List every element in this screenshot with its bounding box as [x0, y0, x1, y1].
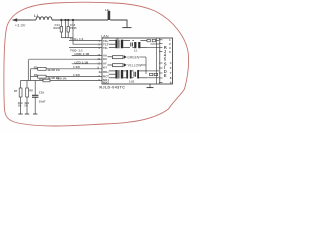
node junction dots on rail [60, 19, 74, 21]
pin labels left (TD group) [103, 39, 109, 50]
net stub TXO- [69, 47, 102, 49]
resistor R8 [24, 81, 33, 115]
svg-text:10nF: 10nF [39, 99, 46, 103]
termination resistors (bottom right) [147, 71, 159, 78]
choke (bottom) [126, 70, 134, 83]
wire left vertical V1 [27, 59, 29, 80]
right column divider [159, 38, 161, 84]
ferrite bead L2 [105, 8, 110, 20]
wire bottom row [21, 80, 44, 82]
transformer T1 (top windings) [109, 38, 130, 48]
svg-text:RJLD-043TC: RJLD-043TC [99, 85, 125, 89]
choke (top) [134, 41, 147, 53]
svg-text:TD-: TD- [103, 46, 108, 50]
transformer T2 (bottom windings) [109, 70, 127, 79]
net stub ACT led [72, 63, 102, 65]
svg-text:R8: R8 [29, 88, 33, 92]
LED yellow [108, 63, 147, 67]
svg-text:MX2: MX2 [103, 81, 109, 85]
wire cap bus to block [61, 37, 73, 39]
+3.3V power flag [12, 18, 31, 27]
resistor R4 (horizontal) [39, 77, 67, 82]
svg-text:LINK 1:1B: LINK 1:1B [75, 52, 91, 56]
capacitor internal (top) [131, 41, 134, 48]
wire drops from rail [61, 20, 73, 45]
svg-text:49.9R 1%: 49.9R 1% [47, 68, 60, 72]
svg-text:R4: R4 [39, 77, 43, 81]
svg-text:49.9 1%: 49.9 1% [56, 77, 67, 81]
inductor L1 [34, 14, 52, 20]
svg-text:R7: R7 [14, 89, 18, 93]
pin labels left (LED group) [103, 53, 107, 69]
wire rail to ground [110, 20, 127, 28]
svg-text:LED 1:1B: LED 1:1B [75, 60, 90, 64]
net stub LINK led [72, 54, 102, 56]
svg-text:R1/X5: R1/X5 [54, 27, 61, 30]
wire led common [145, 57, 147, 74]
svg-text:GREEN: GREEN [127, 55, 140, 59]
ground (top) [122, 27, 131, 29]
svg-text:KY: KY [103, 65, 107, 69]
svg-text:K9: K9 [103, 57, 107, 61]
svg-text:1:1B: 1:1B [73, 65, 80, 69]
inner section boundary [156, 38, 158, 84]
svg-text:TXO+ 1:1: TXO+ 1:1 [70, 37, 84, 41]
right column pin stubs and numbers (top group) [159, 40, 163, 52]
svg-text:YELLOW: YELLOW [127, 63, 142, 67]
svg-text:P1/X5: P1/X5 [70, 27, 77, 30]
svg-text:1:1B: 1:1B [73, 73, 80, 77]
pin labels left (RD group) [103, 70, 109, 85]
pin numbers left (TD group) [99, 40, 101, 50]
wire left vertical V2 [30, 69, 32, 81]
capacitor C14 [54, 23, 63, 38]
resistor R7 [14, 81, 23, 115]
svg-text:1:1B: 1:1B [129, 80, 134, 83]
right column vertical text (RJ45 SIDE stacked) [164, 45, 167, 78]
resistor R6 [31, 73, 103, 80]
capacitor C13 [67, 23, 77, 38]
ground (below block) [147, 84, 154, 88]
svg-text:C19: C19 [39, 91, 45, 95]
net stub TXO+ [69, 40, 102, 42]
net stub row [99, 71, 102, 73]
capacitor internal (bottom) [134, 70, 147, 79]
LED green [108, 55, 147, 59]
capacitor C19 [32, 81, 46, 115]
wire LED return long [29, 58, 102, 60]
right column pin stubs and numbers (bottom group) [159, 63, 163, 83]
hand-drawn pink border loop [4, 2, 189, 126]
wire +3.3V rail [31, 19, 36, 21]
termination resistors (top right) [147, 39, 159, 47]
svg-text:+3.3V: +3.3V [15, 22, 26, 27]
resistor R5 [31, 65, 103, 72]
svg-text:E: E [164, 73, 167, 78]
